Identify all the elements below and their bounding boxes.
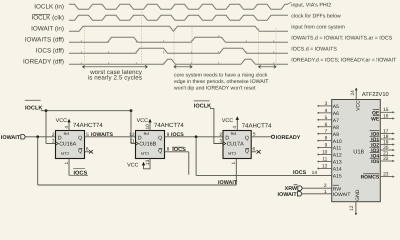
svg-text:won't dip and IOREADY won't re: won't dip and IOREADY won't reset <box>174 85 256 91</box>
U18 output pin 20 (IO3-bar) <box>380 149 393 151</box>
svg-text:IOWAITS.d = IOWAIT; IOWAITS.ar: IOWAITS.d = IOWAIT; IOWAITS.ar = IOCS <box>291 36 392 42</box>
wire XRW port to U18 pin2 <box>303 187 332 189</box>
svg-text:2: 2 <box>219 132 222 138</box>
svg-text:Q: Q <box>158 135 162 141</box>
dashed gridline 6 at x=276 <box>275 28 277 67</box>
U18 output pin 16 (WE-bar) <box>380 118 393 120</box>
svg-text:9: 9 <box>325 143 328 149</box>
svg-text:IOREADY (dff): IOREADY (dff) <box>23 58 64 65</box>
svg-text:IOWAIT: IOWAIT <box>278 192 298 198</box>
U18 output pin 21 (IO4-bar) <box>380 155 393 157</box>
clock-edge window arrow 2 <box>259 66 277 68</box>
worst-case latency arrow <box>83 66 148 68</box>
svg-text:PR: PR <box>143 131 149 136</box>
svg-text:A10: A10 <box>333 139 342 145</box>
svg-text:PR: PR <box>230 131 236 136</box>
wire U16B pin13 CLR hook to VCC <box>144 159 151 169</box>
svg-text:U16A: U16A <box>63 142 77 148</box>
svg-text:IOCLK: IOCLK <box>194 104 211 110</box>
U18 output pin 17 (IO0-bar) <box>380 133 393 135</box>
svg-text:IOWAIT: IOWAIT <box>1 135 21 141</box>
svg-text:13: 13 <box>145 160 151 166</box>
wire U16A Qbar stub (no connect) <box>85 151 90 153</box>
wire IOCS down to A15 run <box>195 137 197 176</box>
svg-text:VCC: VCC <box>222 118 233 124</box>
node IOCLK/U16B clock junction <box>130 109 133 112</box>
svg-text:IOWAIT: IOWAIT <box>333 192 351 198</box>
U18 input pin 4 (A6) <box>318 112 332 114</box>
svg-text:A13: A13 <box>333 160 342 166</box>
svg-text:WE: WE <box>371 117 380 123</box>
flip-flop U16B (74AHCT74) <box>136 131 165 159</box>
svg-text:IOCLK (clk): IOCLK (clk) <box>31 14 64 21</box>
U18 output pin 23 (ROMCS-bar) <box>380 176 393 178</box>
U18 output pin 15 (OE-bar) <box>380 111 393 113</box>
U18 input pin 5 (A7) <box>318 119 332 121</box>
waveform IOCLK (in) <box>69 4 288 9</box>
svg-text:input, VIA's PHI2: input, VIA's PHI2 <box>291 3 331 9</box>
svg-text:6: 6 <box>325 122 328 128</box>
waveform IOWAIT (in) <box>69 26 288 31</box>
waveform IOREADY (dff) <box>69 59 288 64</box>
clock-sample tick marks on dff waveforms <box>81 35 274 64</box>
svg-text:IOREADY: IOREADY <box>276 135 301 141</box>
U18 input pin 13 (A14) <box>318 167 332 169</box>
svg-text:IOCS (dff): IOCS (dff) <box>36 47 64 54</box>
wire IOWAIT port to U16A pin2 (D) <box>26 136 56 138</box>
svg-text:ATF22V10: ATF22V10 <box>362 92 389 98</box>
svg-text:Q: Q <box>245 148 249 154</box>
wire IOCS across to U18 pin 14 <box>196 174 332 176</box>
svg-text:U16B: U16B <box>143 142 157 148</box>
svg-text:VCC: VCC <box>137 118 148 124</box>
U18 output pin 19 (IO2-bar) <box>380 144 393 146</box>
VCC symbol at U16A pin4 preset <box>68 120 70 130</box>
svg-text:Q: Q <box>78 135 82 141</box>
U18 input pin 3 (A5) <box>318 105 332 107</box>
wire IOWAIT port to U18 pin1 <box>302 193 332 195</box>
overline on IOCLK (clk) label <box>32 13 50 15</box>
svg-text:A7: A7 <box>333 118 339 124</box>
connector tick from IOCLK wave end <box>288 2 292 4</box>
svg-text:IOCLK (in): IOCLK (in) <box>34 3 64 10</box>
svg-text:VCC: VCC <box>127 163 138 169</box>
svg-text:ROMCS: ROMCS <box>361 175 380 181</box>
svg-text:21: 21 <box>383 150 389 156</box>
svg-text:GND: GND <box>355 189 361 201</box>
svg-text:IOWAITS: IOWAITS <box>91 132 113 138</box>
wire U17A Q to IOREADY port <box>251 136 271 138</box>
svg-text:6: 6 <box>86 147 89 153</box>
VCC symbol at U16B pin10 preset <box>149 120 151 130</box>
waveform IOWAITS (dff) <box>69 37 288 42</box>
svg-text:17: 17 <box>383 128 389 134</box>
U18 input pin 6 (A8) <box>318 126 332 128</box>
svg-text:CLR: CLR <box>228 151 236 156</box>
svg-text:PR: PR <box>63 131 69 136</box>
svg-text:20: 20 <box>383 145 389 151</box>
net label IOCS-bar under U16A <box>69 174 88 176</box>
svg-text:IOCS: IOCS <box>171 132 184 138</box>
wire IOCLK rail to U16A pin3 <box>45 111 47 144</box>
U18 pin24 VCC wire <box>355 89 357 100</box>
svg-text:clock for DFFs below: clock for DFFs below <box>291 14 341 20</box>
dashed gridline 4 at x=192 <box>191 28 193 67</box>
svg-text:IOCS.d = IOWAITS: IOCS.d = IOWAITS <box>291 47 337 53</box>
svg-text:VCC: VCC <box>56 118 67 124</box>
U18 output pin 18 (IO1-bar) <box>380 138 393 140</box>
dashed gridline 3 at x=174 <box>173 28 175 67</box>
svg-text:CLR: CLR <box>61 151 69 156</box>
svg-text:IOCS: IOCS <box>293 170 307 176</box>
svg-text:8: 8 <box>325 136 328 142</box>
wire U17A Qbar stub (no connect) <box>251 151 256 153</box>
svg-text:U18: U18 <box>353 149 364 156</box>
U18 input pin 8 (A10) <box>318 140 332 142</box>
U18 input pin 11 (A13) <box>318 161 332 163</box>
svg-text:5: 5 <box>253 132 256 138</box>
svg-text:14: 14 <box>312 170 318 176</box>
svg-text:IO5: IO5 <box>371 159 379 165</box>
clock-edge window arrow 1 <box>174 66 192 68</box>
wire IOCLK rail to U16B pin11 <box>130 111 132 144</box>
VCC arrow at U16B pin13 <box>142 162 145 166</box>
svg-text:23: 23 <box>383 171 389 177</box>
svg-text:edge in these periods, otherwi: edge in these periods, otherwise IOWAIT <box>174 79 269 85</box>
svg-text:10: 10 <box>145 124 151 130</box>
svg-text:11: 11 <box>322 157 327 163</box>
svg-text:IOCS: IOCS <box>74 171 88 177</box>
U18 pin12 GND wire <box>355 202 357 214</box>
svg-text:74AHCT74: 74AHCT74 <box>154 122 184 129</box>
wire U16B Q (IOCS) to U17A D <box>165 136 224 138</box>
svg-text:12: 12 <box>349 205 355 211</box>
svg-text:A15: A15 <box>333 174 342 180</box>
svg-text:1: 1 <box>231 162 237 165</box>
svg-text:9: 9 <box>167 132 170 138</box>
net label IOCLK-bar (second) <box>194 100 210 101</box>
dashed gridline 5 at x=258.5 <box>258 28 260 67</box>
svg-text:IOWAIT (in): IOWAIT (in) <box>31 25 64 32</box>
svg-text:3: 3 <box>52 139 55 145</box>
wire U16A pin1 CLR down to IOCS-bar label <box>68 159 70 176</box>
svg-text:core system needs to have a ri: core system needs to have a rising clock <box>174 72 268 78</box>
svg-text:4: 4 <box>64 126 70 129</box>
U18 input pin 7 (A9) <box>318 133 332 135</box>
no-connect X on U16A pin6 <box>89 150 93 154</box>
node IOCLK/U16A clock junction <box>45 109 48 112</box>
svg-text:2: 2 <box>52 132 55 138</box>
svg-text:IOWAITS (dff): IOWAITS (dff) <box>25 36 64 43</box>
svg-text:22: 22 <box>383 156 389 162</box>
output port IOREADY <box>271 135 274 138</box>
svg-text:5: 5 <box>86 132 89 138</box>
PLD U18 ATF22V10 body <box>332 100 381 202</box>
svg-text:D: D <box>138 135 142 141</box>
svg-text:16: 16 <box>383 113 389 119</box>
svg-text:IOCS: IOCS <box>172 147 186 153</box>
waveform IOCLK-bar (clk) <box>69 15 288 20</box>
svg-text:24: 24 <box>350 90 356 96</box>
svg-text:2: 2 <box>324 183 327 189</box>
svg-text:6: 6 <box>253 147 256 153</box>
svg-text:3: 3 <box>219 139 222 145</box>
svg-text:A8: A8 <box>333 125 339 131</box>
svg-text:A6: A6 <box>333 111 339 117</box>
svg-text:A14: A14 <box>333 167 342 173</box>
svg-text:input from core system: input from core system <box>291 25 345 31</box>
svg-text:1: 1 <box>324 189 327 195</box>
svg-text:A5: A5 <box>333 104 339 110</box>
waveform IOCS (dff) <box>69 48 288 53</box>
U18 input pin 10 (A12) <box>318 154 332 156</box>
dashed gridline 1 at x=84.5 <box>84 28 86 68</box>
svg-text:18: 18 <box>383 134 389 140</box>
dashed gridline 2 at x=141.5 <box>141 10 143 68</box>
flip-flop U16A (74AHCT74) <box>56 131 85 159</box>
svg-text:4: 4 <box>325 108 328 114</box>
svg-text:is nearly 2.5 cycles: is nearly 2.5 cycles <box>88 75 142 82</box>
wire U16A Q (IOWAITS) to U16B D <box>85 136 136 138</box>
svg-text:1: 1 <box>64 162 70 165</box>
no-connect X on U17A pin6 <box>257 150 261 154</box>
svg-text:Q: Q <box>78 148 82 154</box>
node IOCS junction to U18 pin14 <box>195 135 198 138</box>
net label IOCS-bar at U16B pin8 <box>172 147 184 148</box>
svg-text:IOCLK: IOCLK <box>25 105 42 111</box>
U18 input pin 9 (A11) <box>318 147 332 149</box>
svg-text:D: D <box>58 135 62 141</box>
svg-text:12: 12 <box>129 132 135 138</box>
svg-text:A11: A11 <box>333 146 342 152</box>
svg-text:U17A: U17A <box>230 142 244 148</box>
wire IOCLK rail <box>41 110 131 112</box>
svg-text:15: 15 <box>383 107 389 113</box>
svg-text:VCC: VCC <box>355 100 361 111</box>
svg-text:D: D <box>225 135 229 141</box>
svg-text:19: 19 <box>383 139 389 145</box>
svg-text:Q: Q <box>245 135 249 141</box>
U18 output pin 22 (IO5-bar) <box>380 160 393 162</box>
VCC symbol at U17A pin4 preset <box>236 118 238 131</box>
svg-text:13: 13 <box>322 163 328 169</box>
svg-text:11: 11 <box>130 139 135 145</box>
svg-text:8: 8 <box>167 147 170 153</box>
svg-text:5: 5 <box>325 115 328 121</box>
svg-text:74AHCT74: 74AHCT74 <box>73 122 103 129</box>
flip-flop U17A (74AHCT74) <box>223 131 251 159</box>
svg-text:A12: A12 <box>333 153 342 159</box>
svg-text:4: 4 <box>232 126 238 129</box>
svg-text:7: 7 <box>325 129 328 135</box>
node IOWAIT junction <box>36 135 39 138</box>
svg-text:IOWAIT: IOWAIT <box>218 180 238 186</box>
net label IOCLK-bar (left) <box>25 100 41 101</box>
svg-text:IOREADY.d = IOCS; IOREADY.ar =: IOREADY.d = IOCS; IOREADY.ar = !IOWAIT <box>291 58 397 64</box>
wire IOWAIT net down and across to U17A CLR <box>37 137 39 185</box>
svg-text:Q: Q <box>158 148 162 154</box>
svg-text:CLR: CLR <box>141 151 149 156</box>
wire U16B Qbar stub with bend <box>165 151 189 153</box>
svg-text:10: 10 <box>322 150 328 156</box>
svg-text:74AHCT74: 74AHCT74 <box>242 123 272 130</box>
wire IOCLK label to U17A pin3 <box>210 109 223 144</box>
svg-text:3: 3 <box>325 101 328 107</box>
svg-text:A9: A9 <box>333 132 339 138</box>
